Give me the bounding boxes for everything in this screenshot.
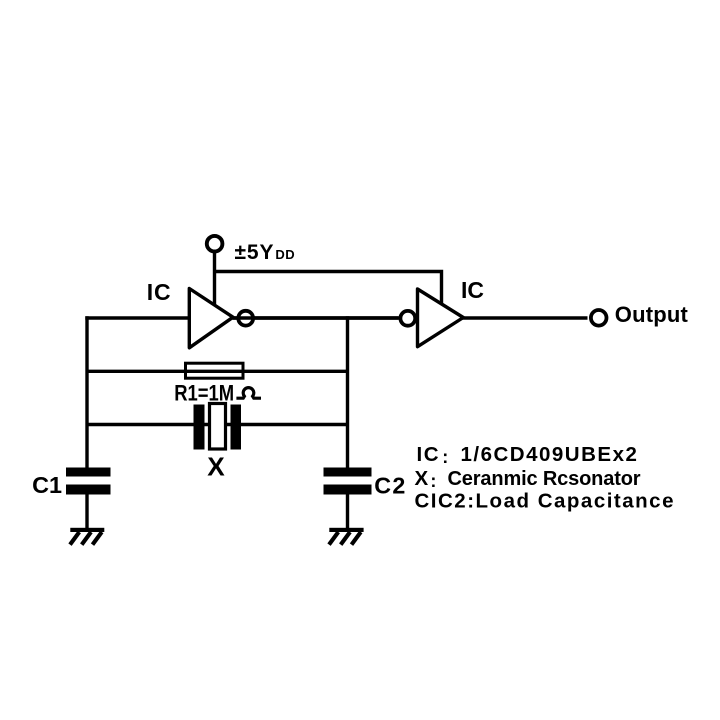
svg-text:C1: C1 <box>32 472 62 498</box>
svg-text:IC:1/6CD409UBEx2: IC:1/6CD409UBEx2 <box>417 443 639 467</box>
svg-text:IC: IC <box>147 279 172 305</box>
svg-text:R1=1M: R1=1M <box>174 381 234 406</box>
svg-text:X:Ceranmic Rcsonator: X:Ceranmic Rcsonator <box>415 467 641 491</box>
svg-text:±5YDD: ±5YDD <box>235 241 296 264</box>
svg-text:CIC2:Load Capacitance: CIC2:Load Capacitance <box>415 490 675 513</box>
svg-text:C2: C2 <box>374 472 406 498</box>
svg-text:IC: IC <box>461 277 484 303</box>
svg-text:X: X <box>207 452 225 482</box>
svg-text:Output: Output <box>615 302 689 327</box>
